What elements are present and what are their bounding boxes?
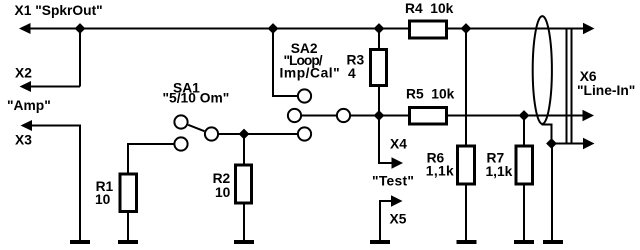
ground X5	[370, 240, 390, 244]
ground R2	[234, 240, 254, 244]
svg-text:X1 "SpkrOut": X1 "SpkrOut"	[15, 3, 103, 18]
cable double line left	[566, 29, 568, 144]
arrow X2	[20, 81, 32, 92]
wire R1 bottom to ground	[127, 212, 129, 241]
wire shield node to ground	[551, 144, 553, 242]
junction node top rail / R6	[461, 23, 472, 34]
svg-text:R5 10k: R5 10k	[406, 87, 455, 102]
resistor R4	[410, 21, 447, 38]
wire top rail y=28.5 from X1 to X6	[25, 28, 584, 30]
svg-text:X5: X5	[390, 212, 407, 227]
wire SA2 top contact from top rail	[273, 29, 297, 97]
arrow X6 pin2	[583, 110, 595, 121]
svg-text:"Line-In": "Line-In"	[577, 83, 635, 98]
svg-text:Imp/Cal": Imp/Cal"	[280, 66, 341, 81]
arrow X5	[391, 195, 403, 206]
arrow X6 pin1	[583, 23, 595, 34]
svg-text:1,1k: 1,1k	[486, 164, 513, 179]
wire cable shield from ellipse to node	[543, 123, 552, 144]
svg-text:"Test": "Test"	[372, 173, 414, 188]
svg-text:1,1k: 1,1k	[426, 164, 454, 179]
svg-text:X6: X6	[580, 69, 597, 84]
wire X5 branch	[380, 201, 391, 241]
svg-text:"5/10 Om": "5/10 Om"	[163, 91, 230, 106]
wire R6 bottom to ground	[465, 184, 467, 241]
arrow X3	[21, 120, 33, 131]
arrow X4	[392, 157, 404, 168]
switch SA2 lever	[302, 115, 336, 117]
svg-text:"Amp": "Amp"	[7, 98, 51, 113]
wire second rail y=115.5 from SA2 to X6	[351, 115, 583, 117]
ground R1	[118, 240, 138, 244]
switch SA2 contact bottom	[298, 127, 311, 140]
junction node SA1 / R2	[239, 129, 250, 140]
svg-text:4: 4	[348, 66, 356, 81]
ground R7	[514, 240, 534, 244]
switch SA1 lever	[188, 125, 204, 131]
svg-text:10: 10	[95, 192, 111, 207]
wire R3 top stub	[378, 29, 380, 51]
wire R1 top to SA1 contact	[128, 144, 174, 174]
junction node second rail / R7	[519, 110, 530, 121]
switch SA2 contact top	[298, 89, 311, 102]
resistor R5	[410, 108, 447, 125]
wire R2 bottom to ground	[243, 204, 245, 241]
switch SA1 contact lower	[174, 137, 187, 150]
junction node shield / ground	[546, 138, 557, 149]
cable ellipse	[533, 16, 552, 124]
switch SA1 contact upper	[174, 115, 187, 128]
switch SA2 contact middle	[288, 109, 301, 122]
wire R7 from second rail	[523, 116, 525, 147]
wire R7 bottom to ground	[523, 184, 525, 241]
resistor R6	[458, 146, 475, 184]
resistor R3	[371, 50, 387, 86]
resistor R7	[516, 146, 533, 184]
resistor R1	[120, 174, 137, 212]
resistor R2	[236, 165, 252, 203]
arrow X6 pin3	[583, 138, 595, 149]
wire R3 bottom stub	[378, 86, 380, 116]
wire X4 branch	[379, 116, 392, 164]
wire shield node to X6 pin3	[552, 143, 585, 145]
svg-text:X2: X2	[15, 66, 32, 81]
wire X2 branch vertical x=80	[79, 29, 81, 87]
svg-text:X3: X3	[15, 133, 32, 148]
ground R6	[457, 240, 477, 244]
arrow X1	[19, 23, 31, 34]
wire SA1 common to SA2 lower contact y=134	[218, 133, 297, 135]
cable double line right	[571, 29, 573, 144]
switch SA2 contact common	[337, 109, 350, 122]
switch SA1 contact common	[205, 127, 218, 140]
junction node second rail / R3 R5 X4	[374, 110, 385, 121]
wire X3 to ground vertical x=80	[79, 125, 81, 242]
svg-text:X4: X4	[390, 137, 407, 152]
junction node top rail / X2	[75, 23, 86, 34]
svg-text:10: 10	[215, 185, 231, 200]
svg-text:R4 10k: R4 10k	[405, 1, 454, 16]
wire X3 horizontal	[28, 125, 80, 127]
wire R6 from top rail	[465, 29, 467, 147]
junction node top rail / R3 R4	[374, 23, 385, 34]
junction node top rail / SA2	[268, 23, 279, 34]
wire X2 horizontal	[27, 86, 80, 88]
svg-text:R2: R2	[213, 171, 231, 186]
ground X3	[70, 240, 90, 244]
ground shield	[543, 240, 563, 244]
wire node to R2 top	[243, 134, 245, 166]
